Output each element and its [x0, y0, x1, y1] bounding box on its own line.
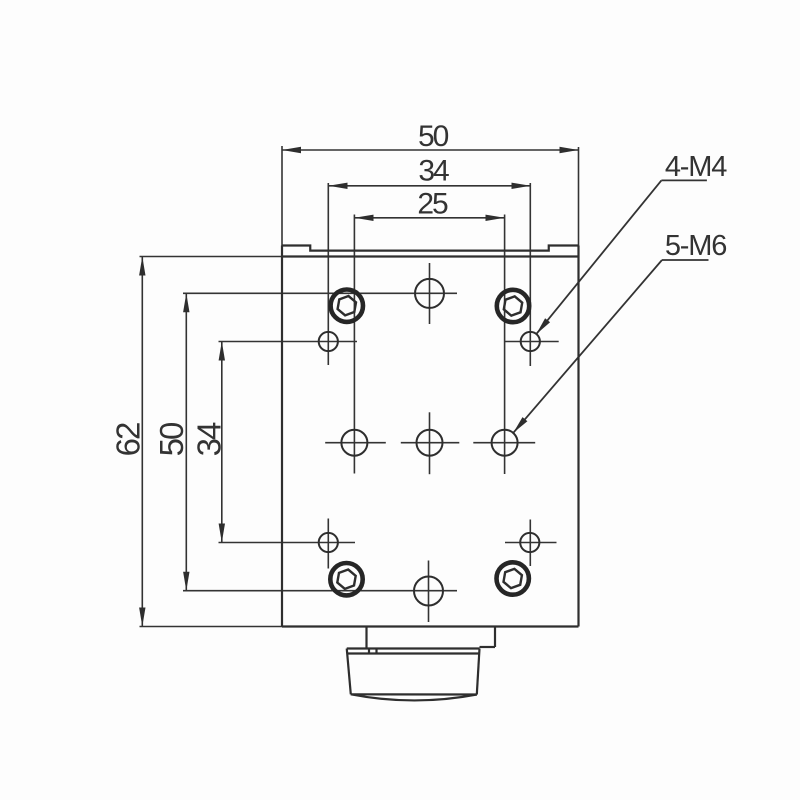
svg-text:34: 34	[191, 422, 228, 456]
svg-text:4-M4: 4-M4	[665, 151, 727, 183]
svg-text:34: 34	[418, 155, 449, 188]
svg-text:50: 50	[418, 120, 449, 153]
svg-text:5-M6: 5-M6	[665, 230, 726, 262]
svg-text:25: 25	[417, 188, 448, 221]
svg-text:50: 50	[153, 422, 190, 456]
svg-text:62: 62	[110, 423, 147, 456]
